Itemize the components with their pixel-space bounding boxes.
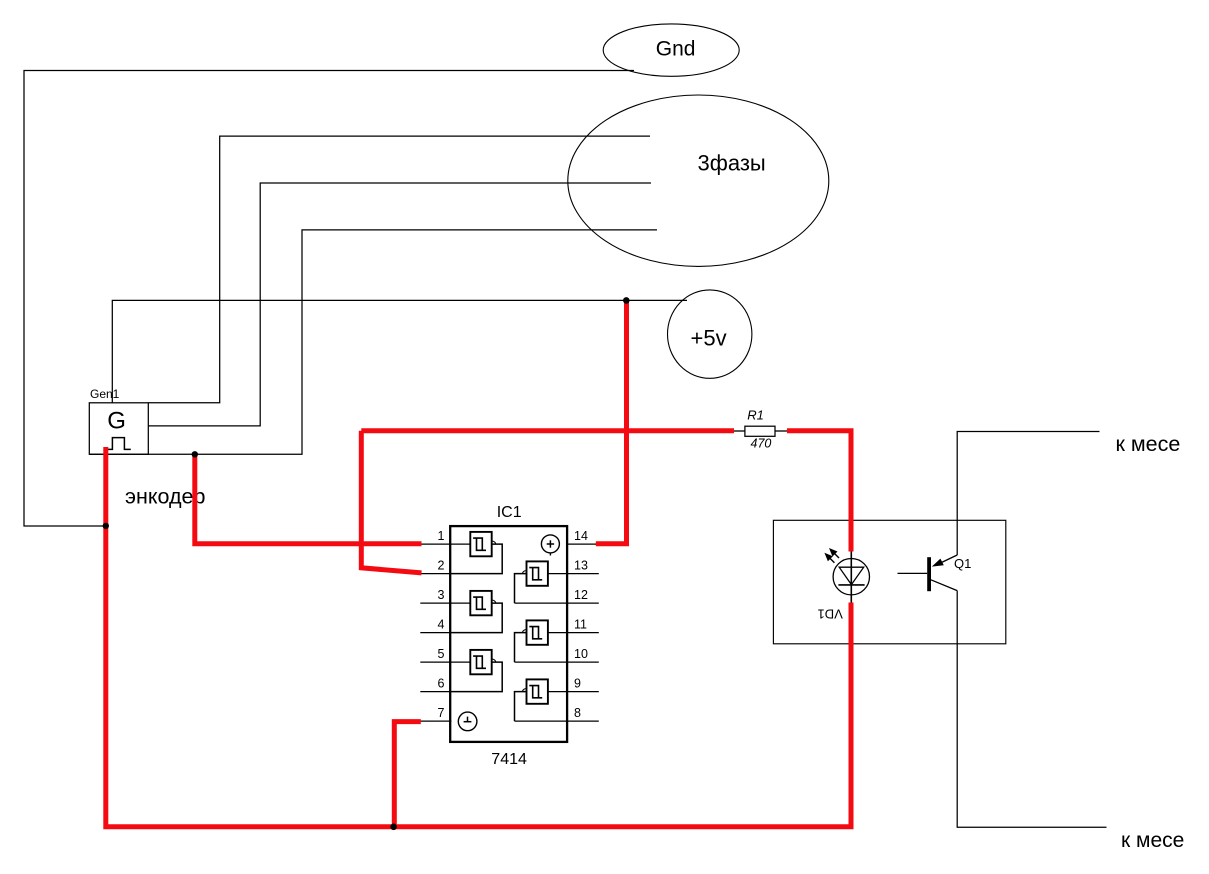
svg-text:470: 470: [751, 437, 772, 451]
pin 13 lead of IC1: [548, 573, 599, 575]
wire red: +5v rail to resistor R1 (left segment): [361, 428, 734, 433]
svg-text:R1: R1: [747, 408, 764, 423]
wire phase B: from Gen1 right edge up and right into 3-phase ellipse: [149, 183, 652, 426]
generator Gen1 box: [89, 403, 148, 455]
node junction dot on Gen1 bottom wire (encoder output): [192, 451, 198, 457]
svg-text:7: 7: [438, 706, 445, 720]
output hook mark of gate A: [492, 541, 496, 544]
wire red: encoder ground from Gen1 down, along bottom, up to LED cathode: [106, 447, 851, 827]
wire Gnd net: left frame from Gnd ellipse down and right to encoder red wire: [24, 71, 634, 527]
op-amp inverter gate F (pins 8->9): [527, 679, 548, 703]
node 3-phase balloon ellipse: [568, 95, 829, 266]
svg-text:IC1: IC1: [497, 504, 522, 521]
power pin symbol (+) inside IC1 at pin 14: [541, 535, 559, 556]
wire phase A: from Gen1 top edge up and right into 3-phase ellipse: [149, 136, 651, 403]
svg-text:11: 11: [574, 617, 587, 631]
LED VD1 cathode/anode vertical lead through circle: [850, 551, 852, 604]
LED VD1 emission arrow 1: [829, 548, 839, 558]
svg-text:4: 4: [438, 617, 445, 631]
node junction dot on Gnd frame at encoder red wire: [103, 523, 109, 529]
wire collector of Q1 up and right to top к месе: [957, 432, 1099, 556]
LED VD1 emission arrow 2: [824, 553, 834, 563]
wire emitter of Q1 down and right to bottom к месе: [957, 591, 1106, 828]
svg-text:к месе: к месе: [1116, 432, 1181, 456]
op-amp IC1 7414 body box: [450, 526, 567, 742]
svg-text:+5v: +5v: [691, 326, 727, 351]
input hook mark of gate D: [522, 571, 526, 574]
wire red: +5v junction down to IC1 pin 14: [596, 300, 627, 543]
LED VD1 triangle: [839, 567, 864, 584]
ground pin symbol inside IC1 at pin 7: [458, 712, 477, 731]
svg-text:Gen1: Gen1: [90, 387, 120, 401]
transistor Q1 collector line with arrow: [932, 555, 957, 567]
node Gnd balloon ellipse: [603, 24, 739, 76]
svg-text:Gnd: Gnd: [656, 38, 696, 61]
output hook mark of gate C: [492, 659, 496, 662]
wire phase C: from Gen1 bottom edge up and right into 3-phase ellipse: [89, 230, 657, 454]
wire output of gate A to pin 2: [451, 544, 502, 574]
op-amp inverter gate C (pins 5->6): [470, 650, 491, 674]
transistor Q1 base bar: [927, 557, 931, 591]
wire red: resistor R1 to LED anode (right segment, down to LED): [787, 431, 851, 552]
pin 6 lead of IC1: [420, 691, 451, 693]
wire red: +5v rail branch down to IC1 pin 2 (diagonal): [361, 431, 421, 573]
pin 4 lead of IC1: [420, 632, 451, 634]
svg-text:G: G: [107, 408, 126, 435]
op-amp inverter gate D (pins 12->13): [527, 561, 548, 585]
svg-text:2: 2: [438, 558, 445, 572]
svg-text:10: 10: [574, 647, 588, 661]
svg-text:12: 12: [574, 588, 588, 602]
op-amp inverter gate B (pins 3->4): [470, 591, 491, 615]
pin 7 lead of IC1: [420, 720, 451, 722]
LED VD1 cathode bar: [838, 584, 864, 586]
pin 11 lead of IC1: [548, 632, 599, 634]
wire +5v net: from Gen1 top up and right to +5v balloon: [112, 300, 687, 402]
node junction dot on +5v wire: [623, 297, 630, 304]
pin 8 lead of IC1: [515, 720, 599, 722]
svg-text:3: 3: [438, 588, 445, 602]
resistor R1 leads: [734, 430, 746, 432]
op-amp inverter gate E (pins 10->11): [527, 620, 548, 644]
optocoupler box: [773, 520, 1005, 644]
svg-text:8: 8: [574, 706, 581, 720]
pin 3 lead of IC1: [420, 602, 470, 604]
resistor R1 body: [745, 426, 775, 436]
generator pulse waveform symbol: [108, 438, 131, 450]
pin 1 lead of IC1: [420, 543, 470, 545]
wire red: IC1 pin 7 to ground rail: [394, 722, 421, 827]
svg-text:13: 13: [574, 558, 588, 572]
input hook mark of gate F: [522, 689, 526, 692]
wire output of gate C to pin 6: [451, 662, 502, 692]
node junction dot on bottom red rail at pin-7 branch: [390, 824, 397, 831]
wire red: encoder signal from Gen1 bottom junction to IC1 pin 1: [195, 454, 422, 544]
wire input of gate E from pin 10: [515, 633, 527, 663]
wire output of gate B to pin 4: [451, 603, 502, 633]
svg-text:7414: 7414: [491, 751, 527, 768]
transistor Q1 emitter line: [931, 580, 957, 591]
transistor Q1 base lead: [898, 572, 928, 574]
svg-text:1: 1: [438, 529, 445, 543]
pin 12 lead of IC1: [515, 602, 599, 604]
pin 9 lead of IC1: [548, 691, 599, 693]
svg-text:Q1: Q1: [954, 556, 971, 571]
svg-text:6: 6: [438, 676, 445, 690]
pin 2 lead of IC1: [420, 573, 451, 575]
svg-text:9: 9: [574, 676, 581, 690]
input hook mark of gate E: [522, 630, 526, 633]
pin 10 lead of IC1: [515, 661, 599, 663]
pin 14 lead of IC1: [566, 543, 599, 545]
svg-text:к месе: к месе: [1121, 829, 1184, 852]
node +5v balloon circle: [668, 290, 752, 378]
pin 5 lead of IC1: [420, 661, 470, 663]
wire input of gate D from pin 12: [515, 574, 527, 604]
svg-text:3фазы: 3фазы: [698, 151, 766, 176]
wire input of gate F from pin 8: [515, 692, 527, 722]
svg-text:5: 5: [438, 647, 445, 661]
output hook mark of gate B: [492, 600, 496, 603]
op-amp inverter gate A (pins 1->2): [470, 532, 491, 556]
svg-text:14: 14: [574, 529, 588, 543]
svg-text:VD1: VD1: [818, 606, 843, 621]
LED VD1 circle: [833, 559, 869, 595]
